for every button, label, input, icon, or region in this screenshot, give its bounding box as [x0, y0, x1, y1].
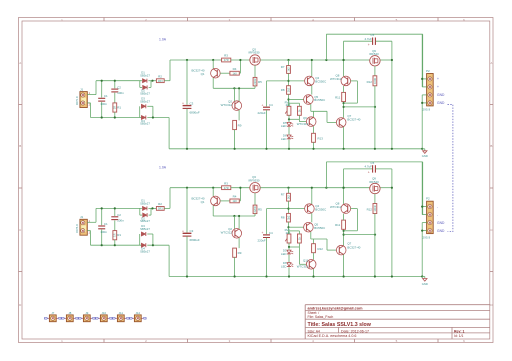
resistor R22	[312, 244, 316, 253]
svg-text:Title: Salas SSLV1.3 slow: Title: Salas SSLV1.3 slow	[308, 322, 372, 328]
pin stub left J12	[133, 317, 135, 319]
wire R22 to Q11	[313, 253, 315, 260]
wire Q6 base	[299, 121, 306, 123]
pin stub right J12	[141, 317, 143, 319]
wire wiper drop bottom	[298, 247, 300, 264]
title block border	[305, 304, 490, 306]
connector J7	[49, 315, 56, 322]
pin stub right J11	[124, 317, 126, 319]
wire Q11 base	[299, 263, 306, 265]
top channel	[75, 33, 433, 158]
wire R22 top	[313, 239, 315, 244]
svg-text:WTC312: WTC312	[297, 265, 309, 269]
svg-text:+: +	[437, 77, 439, 81]
net tag right J12	[143, 318, 146, 320]
svg-text:KiCad E.D.A. eeschema 4.0.6: KiCad E.D.A. eeschema 4.0.6	[308, 334, 357, 338]
frame column tick	[187, 339, 189, 343]
pin stub left J7	[48, 317, 50, 319]
junction R13 rail	[312, 148, 314, 150]
svg-text:B: B	[19, 144, 21, 148]
svg-text:GND: GND	[437, 93, 445, 97]
svg-text:J9: J9	[85, 311, 88, 315]
frame column tick	[270, 18, 272, 22]
title block row line	[305, 332, 490, 334]
wire wiper drop top	[298, 119, 300, 121]
title block left edge	[304, 305, 306, 339]
frame column tick	[103, 18, 105, 22]
frame row tick	[19, 271, 23, 273]
net tag left J7	[45, 318, 48, 320]
frame column tick	[103, 339, 105, 343]
bottom channel	[75, 161, 433, 286]
svg-text:Date: 2012-06-17: Date: 2012-06-17	[341, 329, 369, 333]
svg-text:Q11: Q11	[303, 259, 309, 263]
wire Q6 emitter	[313, 126, 315, 133]
pin stub right J8	[73, 317, 75, 319]
svg-text:+: +	[437, 85, 439, 89]
pin stub left J10	[99, 317, 101, 319]
title block divider size/date	[338, 327, 340, 333]
connector J11	[117, 315, 124, 322]
net tag left J11	[113, 318, 116, 320]
pin stub left J9	[82, 317, 84, 319]
svg-text:R22: R22	[318, 247, 324, 251]
wire Q11 emitter	[313, 269, 315, 277]
junction Q11 rail	[312, 275, 314, 277]
net tag right J8	[75, 318, 78, 320]
frame column tick	[354, 339, 356, 343]
frame row tick	[490, 187, 493, 189]
svg-text:WTC312: WTC312	[297, 122, 309, 126]
resistor R13	[312, 133, 316, 142]
transistor Q11 WTC312	[306, 260, 316, 270]
svg-text:A: A	[490, 61, 492, 65]
frame row tick	[490, 104, 493, 106]
frame column tick	[437, 18, 439, 22]
pin stub left J11	[116, 317, 118, 319]
wire Q6 collector	[313, 111, 315, 117]
frame column tick	[187, 18, 189, 22]
connector J12	[134, 315, 141, 322]
frame column tick	[270, 339, 272, 343]
frame column tick	[354, 18, 356, 22]
svg-text:J10: J10	[102, 311, 107, 315]
svg-text:J12: J12	[136, 311, 141, 315]
net tag left J9	[79, 318, 82, 320]
net tag right J9	[92, 318, 95, 320]
pin stub right J9	[90, 317, 92, 319]
net tag left J12	[130, 318, 133, 320]
title block row line	[305, 318, 490, 320]
svg-text:Id: 1/1: Id: 1/1	[454, 334, 464, 338]
net tag right J7	[58, 318, 61, 320]
wire R13 bottom	[313, 142, 315, 149]
svg-text:R13: R13	[318, 136, 324, 140]
svg-text:andrzej.kuszynski@gmail.com: andrzej.kuszynski@gmail.com	[308, 306, 364, 310]
connector J10	[100, 315, 107, 322]
svg-text:GND: GND	[437, 101, 445, 105]
frame row tick	[19, 187, 23, 189]
title block row line	[305, 309, 490, 311]
pin stub left J8	[65, 317, 67, 319]
svg-text:J8: J8	[68, 311, 71, 315]
title block divider rev	[451, 327, 453, 339]
net tag right J11	[126, 318, 129, 320]
connector J9	[83, 315, 90, 322]
frame column tick	[437, 339, 439, 343]
svg-text:GND: GND	[437, 229, 445, 233]
svg-text:Q6: Q6	[303, 116, 307, 120]
connector J8	[66, 315, 73, 322]
svg-text:File: Salas_P.sch: File: Salas_P.sch	[308, 315, 334, 319]
svg-text:Size: A4: Size: A4	[308, 329, 321, 333]
svg-text:B: B	[490, 144, 492, 148]
pin stub right J7	[56, 317, 58, 319]
net tag left J10	[96, 318, 99, 320]
title block row line	[305, 326, 490, 328]
svg-text:J11: J11	[119, 311, 124, 315]
net tag left J8	[61, 318, 64, 320]
svg-text:-: -	[437, 213, 438, 217]
frame row tick	[19, 104, 23, 106]
net tag right J10	[109, 318, 112, 320]
svg-text:GND: GND	[437, 221, 445, 225]
svg-text:J7: J7	[51, 311, 54, 315]
dashed GND link note	[448, 105, 453, 232]
svg-text:-: -	[437, 205, 438, 209]
svg-text:Rev: 1: Rev: 1	[454, 329, 465, 333]
pin stub right J10	[107, 317, 109, 319]
svg-text:A: A	[19, 61, 21, 65]
transistor Q6 WTC312	[306, 117, 316, 127]
frame row tick	[490, 271, 493, 273]
